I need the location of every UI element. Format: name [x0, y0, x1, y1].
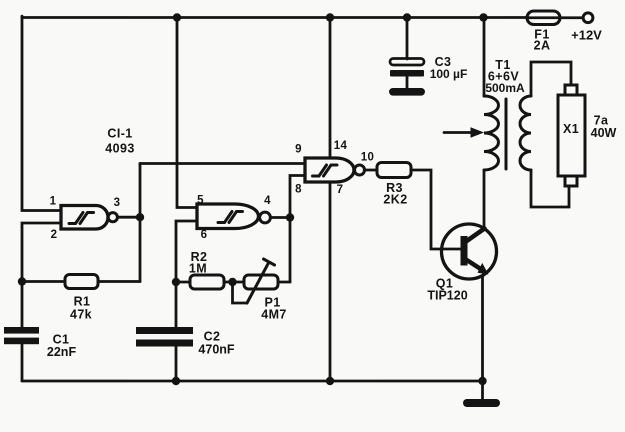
transformer T1 secondary winding — [520, 96, 531, 170]
wire pin 3 output — [117, 216, 140, 219]
svg-text:2: 2 — [51, 229, 58, 241]
wire R2 right lead to P1 — [224, 281, 244, 284]
svg-text:2K2: 2K2 — [383, 193, 407, 207]
wire R1 left lead — [22, 280, 65, 283]
svg-text:1M: 1M — [189, 262, 207, 276]
node ground rail junction C2 — [172, 377, 180, 385]
wire secondary bottom to lamp bottom — [531, 170, 569, 207]
wire fuse to +12V terminal — [560, 16, 583, 19]
svg-text:100 µF: 100 µF — [430, 67, 468, 81]
trimpot P1 body — [244, 275, 278, 289]
wire bottom ground rail — [22, 380, 483, 383]
fuse F1 body — [527, 11, 560, 25]
wire left bus from +12V rail down to pin 1 — [22, 16, 61, 210]
svg-text:CI-1: CI-1 — [107, 127, 132, 141]
capacitor C1 plate bottom — [4, 338, 39, 345]
node R1 left junction on lower-left bus — [18, 277, 26, 285]
resistor R3 — [377, 163, 411, 178]
svg-text:R1: R1 — [74, 295, 91, 309]
node pin 4 junction — [286, 213, 294, 221]
svg-text:7: 7 — [337, 184, 344, 196]
svg-text:47k: 47k — [70, 308, 92, 322]
node R2/P1 wiper junction — [228, 278, 236, 286]
wire pin 4 node down to P1 — [289, 218, 292, 283]
svg-text:C2: C2 — [204, 330, 221, 344]
wire pin 9 from pin3 node to gate c — [140, 162, 305, 165]
lamp X1 tube body — [558, 95, 585, 176]
svg-text:4: 4 — [264, 195, 271, 207]
wire pin 4 node up to pin 8 of gate c — [290, 176, 305, 218]
wire P1 wiper return to R2 junction — [233, 282, 248, 303]
resistor R2 — [190, 275, 224, 289]
wire pin 6 to lower bus down to R2 node and C2 — [176, 221, 197, 327]
wire R3 right lead to base corner — [411, 170, 461, 249]
capacitor C3 bottom plate — [390, 70, 424, 77]
resistor R1 — [65, 275, 98, 289]
schmitt hysteresis symbol gate b — [218, 212, 243, 223]
wire pin 7 down to ground rail — [329, 182, 332, 381]
transformer T1 primary winding — [484, 96, 499, 170]
schmitt hysteresis symbol gate a — [69, 213, 94, 224]
wire secondary top to lamp — [531, 62, 571, 96]
svg-text:470nF: 470nF — [198, 343, 234, 357]
svg-text:500mA: 500mA — [485, 81, 525, 95]
wire +12V bus down to pin 5 — [177, 18, 197, 208]
svg-text:4M7: 4M7 — [261, 308, 287, 322]
transformer T1 tap arrowhead — [471, 127, 485, 138]
svg-text:22nF: 22nF — [47, 345, 77, 359]
svg-text:X1: X1 — [563, 122, 579, 136]
inverter bubble pin 4 — [260, 212, 271, 223]
svg-text:2A: 2A — [534, 39, 551, 53]
svg-text:10: 10 — [361, 152, 374, 164]
svg-text:1: 1 — [50, 196, 57, 208]
trimpot P1 wiper arrow — [247, 259, 275, 303]
node pin 3 junction — [136, 213, 144, 221]
lamp X1 bottom cap — [565, 176, 577, 186]
wire C2 bottom to ground rail — [175, 347, 178, 382]
node junction top rail x=407 — [403, 13, 411, 21]
capacitor C3 top plate (hollow) — [390, 59, 424, 66]
node junction top rail x=483 — [479, 13, 487, 21]
transistor Q1 emitter stroke — [466, 260, 483, 271]
capacitor C1 plate top — [4, 327, 39, 334]
node ground rail junction emitter — [478, 377, 486, 385]
svg-text:TIP120: TIP120 — [427, 289, 467, 303]
wire pin 4 output — [270, 216, 290, 219]
wire R1 right lead — [98, 280, 140, 283]
wire C3 to ground bar — [406, 77, 409, 89]
svg-text:4093: 4093 — [105, 142, 134, 156]
transformer T1 tap arrow wire — [444, 131, 474, 134]
transistor Q1 emitter arrowhead — [478, 263, 489, 275]
node ground rail junction pin 7 — [326, 377, 334, 385]
transistor Q1 circle — [442, 224, 497, 279]
svg-text:+12V: +12V — [571, 28, 602, 43]
svg-text:8: 8 — [295, 184, 302, 196]
svg-text:9: 9 — [295, 144, 302, 156]
node R2 left junction on lower bus — [172, 278, 180, 286]
op-amp U1 gate CI-1a body (NAND Schmitt pins 1,2,3) — [61, 206, 108, 230]
wire collector riser to transformer primary — [483, 170, 486, 228]
wire pin 10 output to R3 — [365, 169, 378, 172]
wire pin 14 riser from +12V rail — [329, 18, 332, 159]
terminal +12V — [583, 13, 593, 23]
transformer T1 core — [505, 99, 508, 169]
svg-text:6: 6 — [201, 229, 208, 241]
schmitt hysteresis symbol gate c — [313, 165, 338, 176]
wire P1 right lead — [278, 281, 290, 284]
wire pin 2 to lower-left bus down to C1 — [22, 223, 61, 327]
ground symbol under C3 — [389, 88, 425, 96]
node junction top rail x=177 — [173, 13, 181, 21]
transistor Q1 base bar — [461, 236, 468, 266]
node junction top rail x=330 — [326, 13, 334, 21]
svg-text:3: 3 — [114, 197, 121, 209]
capacitor C2 plate bottom — [136, 340, 193, 347]
wire ground rail to ground bar — [481, 381, 484, 399]
svg-text:5: 5 — [197, 195, 204, 207]
wire R2 left lead — [176, 281, 190, 284]
wire C1 bottom to ground rail — [21, 344, 24, 381]
op-amp U2 gate CI-1b body (NAND Schmitt pins 5,6,4) — [197, 204, 259, 229]
wire primary top lead from +12V rail — [483, 18, 486, 97]
ground symbol at emitter — [463, 399, 500, 407]
wire C3 riser from +12V rail — [406, 18, 409, 60]
op-amp U3 gate CI-1c body (NAND Schmitt pins 8,9,10) — [305, 158, 354, 182]
wire pin 3 node riser to pin 9 wire and down to R1 — [139, 164, 142, 282]
fuse F1 element line — [527, 16, 560, 19]
transistor Q1 collector stroke — [466, 229, 485, 242]
inverter bubble pin 3 — [108, 213, 117, 222]
svg-text:40W: 40W — [591, 126, 617, 140]
wire emitter down to ground rail — [481, 276, 484, 382]
inverter bubble pin 10 — [355, 165, 365, 175]
capacitor C2 plate top — [136, 327, 193, 334]
lamp X1 top cap — [565, 85, 577, 95]
svg-text:14: 14 — [334, 140, 348, 152]
wire +12V top rail — [22, 16, 527, 19]
